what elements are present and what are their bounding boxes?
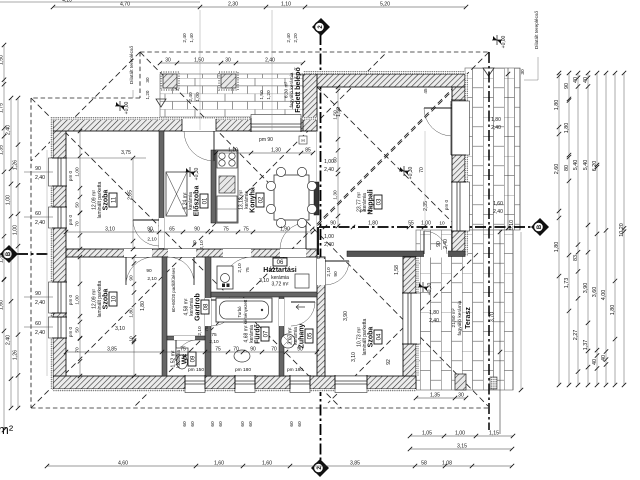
svg-text:12,09 m²: 12,09 m²: [91, 289, 97, 309]
partition: haztartasi/furdo: [211, 292, 317, 297]
svg-text:2,40: 2,40: [324, 167, 334, 173]
kitchen sink unit: [219, 176, 235, 193]
svg-text:+0,30: +0,30: [408, 166, 414, 179]
svg-text:+0,00: +0,00: [501, 35, 507, 48]
kitchen window north: [251, 119, 301, 131]
svg-text:2,40: 2,40: [493, 209, 503, 215]
dimension line: [47, 465, 512, 467]
wall: middle (west wing): [66, 249, 317, 257]
level marker: [418, 282, 428, 292]
svg-text:90: 90: [148, 229, 154, 235]
svg-text:kerámia: kerámia: [293, 327, 299, 345]
svg-text:07: 07: [263, 330, 269, 337]
svg-text:1,05: 1,05: [422, 431, 432, 437]
svg-text:90: 90: [297, 347, 303, 353]
svg-text:1,37: 1,37: [583, 340, 589, 351]
svg-text:30: 30: [520, 69, 526, 75]
svg-text:1,50: 1,50: [259, 90, 265, 100]
svg-text:1,30: 1,30: [271, 148, 281, 154]
room label 02 Konyha: [256, 193, 264, 207]
svg-text:1,60: 1,60: [0, 300, 5, 310]
wall: south exterior: [53, 376, 416, 389]
svg-text:2,40: 2,40: [491, 125, 501, 131]
svg-text:2,40: 2,40: [182, 33, 188, 43]
dimension line: [66, 351, 317, 353]
svg-text:11: 11: [111, 196, 117, 203]
partition: gardrob/furdo: [205, 257, 211, 376]
svg-text:05: 05: [307, 332, 313, 339]
svg-text:58: 58: [421, 461, 427, 467]
svg-text:pm 0: pm 0: [68, 170, 73, 181]
svg-text:1,60: 1,60: [214, 461, 224, 467]
dimension line: [337, 87, 339, 226]
haztartasi fixture: [295, 274, 309, 288]
svg-text:1,00: 1,00: [6, 195, 12, 205]
entrance door opening: [182, 119, 216, 131]
svg-text:45: 45: [423, 88, 428, 94]
svg-text:2,40: 2,40: [265, 58, 275, 64]
dimension line: [410, 435, 513, 437]
partition: szoba10/gardrob: [162, 257, 167, 376]
svg-text:60: 60: [190, 421, 196, 427]
svg-text:3,75: 3,75: [121, 150, 131, 156]
entrance door leaf+arc: [213, 131, 215, 161]
dimension line: [577, 73, 579, 385]
svg-text:3,10: 3,10: [115, 326, 125, 332]
svg-text:Szoba: Szoba: [368, 327, 375, 348]
svg-text:60: 60: [240, 421, 246, 427]
svg-text:1,20: 1,20: [266, 90, 272, 100]
svg-text:pm 0: pm 0: [68, 326, 73, 337]
svg-text:2,30: 2,30: [228, 2, 238, 8]
svg-text:1,80: 1,80: [368, 221, 378, 227]
wall: east exterior (nappali): [452, 87, 465, 256]
dimension line: [410, 448, 512, 450]
svg-text:fagyálló kerámia: fagyálló kerámia: [457, 300, 463, 335]
dimension line: [568, 73, 570, 385]
roof eave outline: [140, 51, 489, 53]
svg-text:Dilatált tereplécső: Dilatált tereplécső: [534, 11, 540, 49]
section marker B: [0, 245, 18, 263]
svg-text:2,40: 2,40: [6, 335, 12, 345]
svg-text:3,10: 3,10: [351, 352, 357, 362]
dimension line: [216, 152, 313, 154]
wall: zuhany/szoba04 divider: [317, 257, 325, 376]
room label 08 Gardrob: [201, 300, 209, 314]
svg-text:02: 02: [258, 196, 264, 203]
svg-text:3,90: 3,90: [583, 283, 589, 294]
svg-text:1,10: 1,10: [281, 2, 291, 8]
svg-text:1,60: 1,60: [262, 461, 272, 467]
svg-text:1,15: 1,15: [489, 431, 499, 437]
insulation dots north-west: [53, 117, 317, 120]
svg-text:1,80: 1,80: [429, 310, 439, 316]
dimension line: [587, 73, 589, 385]
svg-text:30: 30: [225, 58, 231, 64]
svg-text:4,00: 4,00: [601, 290, 607, 301]
svg-text:Szoba: Szoba: [103, 190, 110, 211]
svg-text:1,80: 1,80: [129, 308, 135, 318]
svg-text:Terasz: Terasz: [465, 307, 472, 329]
insulation dots south: [53, 389, 416, 392]
svg-text:75: 75: [215, 347, 221, 353]
dimension line: [3, 45, 5, 430]
section line 2 vertical: [320, 34, 322, 461]
wardrobe eloszoba: [166, 172, 187, 216]
svg-text:+0,00: +0,00: [124, 101, 130, 114]
svg-text:1,10: 1,10: [228, 148, 238, 154]
svg-text:2,60: 2,60: [554, 164, 560, 175]
svg-text:50: 50: [75, 202, 81, 208]
svg-text:03: 03: [376, 198, 382, 205]
dimension line: [10, 98, 12, 408]
section marker 2: [312, 18, 330, 36]
svg-text:Előszoba: Előszoba: [194, 186, 201, 217]
svg-text:1,80: 1,80: [554, 100, 560, 111]
svg-text:75: 75: [204, 326, 210, 332]
svg-text:1,35: 1,35: [430, 393, 440, 399]
svg-text:2,85: 2,85: [128, 190, 134, 200]
svg-text:Háztartási: Háztartási: [263, 267, 297, 274]
room label 10 Szoba: [109, 292, 117, 306]
svg-text:5,40: 5,40: [583, 160, 589, 171]
svg-text:90: 90: [333, 271, 339, 277]
svg-text:Szoba: Szoba: [103, 289, 110, 310]
level marker: [115, 101, 125, 111]
window dim left: [24, 171, 53, 173]
svg-text:12,09 m²: 12,09 m²: [91, 190, 97, 210]
svg-text:m²: m²: [0, 422, 14, 437]
svg-text:21,50 m²: 21,50 m²: [451, 308, 457, 327]
svg-text:3,10: 3,10: [105, 227, 115, 233]
svg-text:50: 50: [75, 327, 81, 333]
svg-text:Zuhany: Zuhany: [299, 323, 306, 348]
svg-text:Konyha: Konyha: [250, 187, 257, 213]
svg-text:1,08: 1,08: [442, 461, 452, 467]
svg-text:Turbó: Turbó: [237, 306, 242, 318]
svg-text:30: 30: [165, 58, 171, 64]
svg-text:90: 90: [250, 347, 256, 353]
svg-text:23,77 m²: 23,77 m²: [356, 192, 362, 212]
svg-text:1,40: 1,40: [189, 33, 195, 43]
wall: north (east wing): [303, 74, 465, 87]
dimension line: [160, 62, 303, 64]
svg-text:3,07 m²: 3,07 m²: [287, 327, 293, 344]
svg-text:2,40: 2,40: [35, 300, 45, 306]
door: terrace from nappali: [424, 250, 448, 258]
svg-text:4,10: 4,10: [62, 0, 72, 4]
svg-text:1,00: 1,00: [75, 295, 81, 305]
svg-text:2,10: 2,10: [147, 276, 157, 282]
door: gardrob: [168, 249, 196, 257]
svg-text:2,27: 2,27: [573, 330, 579, 341]
svg-text:75: 75: [245, 267, 251, 273]
room label 03 Nappali: [374, 195, 382, 209]
wall: nappali west stub: [314, 182, 319, 215]
svg-text:+0,30: +0,30: [194, 167, 200, 180]
svg-text:90: 90: [330, 221, 336, 227]
dimension line: [596, 73, 598, 385]
svg-text:Fedett belépő: Fedett belépő: [295, 67, 302, 113]
left window dim line: [46, 150, 48, 376]
svg-text:40: 40: [592, 359, 598, 365]
furdo sink: [234, 350, 250, 362]
svg-text:2,40: 2,40: [443, 239, 449, 249]
svg-text:+0,30: +0,30: [427, 282, 433, 295]
section marker B: [531, 218, 549, 236]
svg-text:10: 10: [439, 221, 445, 227]
stove: [217, 151, 237, 168]
nappali east window 2: [452, 182, 465, 231]
svg-text:75: 75: [211, 332, 217, 338]
door: haztartasi from konyha: [280, 249, 306, 257]
svg-text:2,40: 2,40: [6, 125, 12, 135]
svg-text:pm 90: pm 90: [259, 137, 273, 143]
svg-text:pm 150: pm 150: [188, 367, 204, 373]
porch paving (Fedett belepo): [160, 74, 303, 119]
zuhany arrow: [296, 305, 305, 310]
door: szoba11: [159, 218, 164, 248]
svg-text:01: 01: [202, 197, 208, 204]
door: szoba04 entry: [317, 259, 325, 285]
svg-text:pm 0: pm 0: [68, 294, 73, 305]
svg-text:60: 60: [218, 421, 224, 427]
svg-text:H: H: [301, 138, 304, 143]
room label 11 Szoba: [109, 193, 117, 207]
svg-text:1,00: 1,00: [421, 221, 431, 227]
svg-text:fagyálló kerámia: fagyálló kerámia: [289, 72, 295, 107]
svg-text:70: 70: [419, 167, 425, 173]
window dim left: [24, 326, 53, 328]
svg-text:70: 70: [233, 347, 239, 353]
svg-text:40: 40: [601, 355, 607, 361]
svg-text:3,90: 3,90: [343, 311, 349, 321]
wall: north (west wing): [53, 119, 317, 131]
door: furdo: [205, 298, 211, 326]
svg-text:1,50: 1,50: [194, 58, 204, 64]
dimension line: [53, 6, 466, 8]
svg-text:60: 60: [297, 421, 303, 427]
svg-text:4,70: 4,70: [120, 2, 130, 8]
svg-text:2,40: 2,40: [35, 220, 45, 226]
dimension line: [17, 98, 19, 408]
svg-text:kerámia: kerámia: [249, 325, 255, 343]
terrace column: [455, 374, 466, 390]
svg-text:2,40: 2,40: [188, 92, 194, 102]
insulation dots east: [465, 74, 468, 256]
svg-text:1,73: 1,73: [564, 278, 570, 289]
svg-text:pm 180: pm 180: [287, 367, 303, 373]
wall: szoba04 east: [403, 257, 416, 376]
south window wc: [185, 376, 205, 388]
svg-text:kerámia: kerámia: [271, 275, 289, 281]
roof edge right heavy dashed: [488, 52, 490, 430]
svg-text:6,20: 6,20: [592, 161, 598, 172]
svg-text:2,40: 2,40: [324, 242, 334, 248]
svg-text:70: 70: [271, 347, 277, 353]
svg-text:2,10: 2,10: [326, 267, 332, 277]
svg-text:13,13 m²: 13,13 m²: [238, 190, 244, 210]
svg-text:6,24 m²: 6,24 m²: [182, 192, 188, 209]
svg-text:2,40: 2,40: [286, 33, 292, 43]
svg-text:1,52 m²: 1,52 m²: [170, 350, 176, 367]
section line B horizontal: [17, 253, 319, 255]
section jog: [317, 227, 319, 254]
dimension line: [614, 73, 616, 385]
porch column 1: [163, 74, 177, 88]
svg-text:1,20: 1,20: [145, 90, 150, 99]
svg-text:75: 75: [223, 227, 229, 233]
svg-text:60+60/20 padlófűtéses: 60+60/20 padlófűtéses: [171, 267, 176, 312]
nappali east door: [452, 101, 465, 155]
svg-text:2,10: 2,10: [199, 240, 205, 250]
svg-text:1,00: 1,00: [75, 167, 81, 177]
svg-text:kerámia: kerámia: [189, 298, 195, 316]
dining table: [274, 175, 309, 220]
svg-text:B: B: [537, 224, 543, 229]
svg-text:09: 09: [190, 355, 196, 362]
svg-text:2,40: 2,40: [429, 318, 439, 324]
room label 09 Wc: [188, 352, 196, 366]
room label 05 Zuhany: [305, 329, 313, 343]
svg-text:60: 60: [35, 321, 41, 327]
south window szoba04: [335, 376, 367, 388]
window W1 left 90: [53, 158, 66, 186]
svg-text:55: 55: [408, 221, 414, 227]
svg-text:10,73 m²: 10,73 m²: [356, 327, 362, 347]
svg-text:83: 83: [573, 255, 579, 261]
roof hip/valley diagonals: [140, 52, 488, 406]
svg-text:3,10: 3,10: [259, 278, 269, 284]
wall: porch east side: [303, 74, 317, 131]
porch level mark: [156, 99, 166, 107]
svg-text:1,80: 1,80: [564, 123, 570, 134]
window dim left: [24, 296, 53, 298]
svg-text:4,58 m²: 4,58 m²: [183, 298, 189, 315]
svg-text:06: 06: [277, 260, 284, 266]
svg-text:60: 60: [210, 421, 216, 427]
insulation dots west: [50, 117, 53, 389]
svg-text:laminált parketta: laminált parketta: [97, 280, 103, 317]
svg-text:90: 90: [146, 268, 152, 274]
svg-text:1,00: 1,00: [13, 225, 19, 235]
svg-text:1,60: 1,60: [493, 201, 503, 207]
svg-text:90: 90: [35, 291, 41, 297]
svg-text:2,40: 2,40: [35, 175, 45, 181]
svg-text:3,85: 3,85: [350, 461, 360, 467]
svg-text:1,80: 1,80: [491, 117, 501, 123]
dimension line: [623, 73, 625, 385]
svg-text:70: 70: [75, 347, 81, 353]
svg-text:90: 90: [35, 166, 41, 172]
south window furdo: [235, 376, 255, 388]
svg-text:60: 60: [333, 157, 339, 163]
svg-text:2,35: 2,35: [423, 201, 429, 211]
insulation dots north-east: [303, 71, 465, 74]
svg-text:pm 0: pm 0: [68, 214, 73, 225]
wall: west exterior: [53, 119, 66, 389]
svg-text:kerámia: kerámia: [244, 191, 250, 209]
svg-text:laminált parketta: laminált parketta: [362, 318, 368, 355]
svg-text:04: 04: [376, 333, 382, 340]
bathtub: [216, 298, 272, 322]
svg-text:Fürdő: Fürdő: [255, 324, 262, 344]
porch column 2: [221, 74, 236, 88]
svg-text:1,00: 1,00: [455, 431, 465, 437]
room label 06 Háztartási: [273, 258, 287, 266]
svg-text:kéményezett: kéményezett: [243, 299, 248, 324]
wall: nappali south: [347, 251, 465, 257]
szoba04 east window: [403, 293, 416, 344]
kitchen counter: [216, 150, 238, 223]
svg-text:1,90: 1,90: [280, 227, 290, 233]
svg-text:laminált parketta: laminált parketta: [97, 181, 103, 218]
svg-text:Gardrob: Gardrob: [195, 293, 202, 321]
dimension line: [79, 131, 81, 249]
window W3 left 90: [53, 282, 66, 313]
svg-text:2,10: 2,10: [197, 326, 203, 336]
svg-text:kerámia: kerámia: [188, 192, 194, 210]
svg-text:Nappali: Nappali: [368, 189, 375, 214]
svg-text:70: 70: [75, 221, 81, 227]
svg-text:3,15: 3,15: [457, 444, 467, 450]
svg-text:60: 60: [182, 421, 188, 427]
svg-text:85: 85: [305, 148, 311, 154]
svg-text:75: 75: [243, 227, 249, 233]
dimension line: [79, 257, 81, 376]
terrace paving upper: [465, 68, 520, 230]
svg-text:60: 60: [35, 211, 41, 217]
svg-text:2,40: 2,40: [35, 330, 45, 336]
room label 01 Előszoba: [200, 194, 208, 208]
svg-text:80: 80: [564, 165, 570, 171]
level marker: [399, 166, 409, 176]
svg-text:1,00: 1,00: [324, 234, 334, 240]
partition: szoba11/eloszoba: [159, 131, 164, 249]
section marker 2: [311, 459, 329, 477]
dimension line: [416, 397, 466, 399]
insulation dots szoba04 east: [416, 257, 419, 376]
terrace level mark: [483, 68, 494, 76]
washing machine: [217, 266, 233, 289]
svg-text:75: 75: [180, 347, 186, 353]
room label 04 Szoba: [374, 330, 382, 344]
window W4 left 60: [53, 317, 66, 338]
svg-text:kerámia: kerámia: [176, 350, 182, 368]
terrace paving lower: [416, 230, 513, 390]
terrace small pier: [490, 377, 497, 389]
door: wc: [174, 336, 195, 340]
dimension line: [605, 73, 607, 385]
dimension line: [66, 231, 313, 233]
window dim left: [24, 216, 53, 218]
svg-text:92: 92: [386, 359, 392, 365]
svg-text:2,10: 2,10: [237, 263, 243, 273]
svg-text:4,60: 4,60: [118, 461, 128, 467]
svg-text:90: 90: [192, 240, 198, 246]
dimension line: [558, 73, 560, 385]
svg-text:3,85: 3,85: [107, 347, 117, 353]
svg-text:Wc: Wc: [182, 354, 189, 365]
svg-text:10: 10: [111, 295, 117, 302]
wc toilet: [176, 348, 188, 355]
svg-text:1,30: 1,30: [333, 190, 339, 200]
south window zuhany: [290, 376, 310, 388]
door: szoba10: [124, 249, 152, 257]
kitchen shelf: [217, 196, 237, 222]
svg-text:1,58: 1,58: [394, 265, 400, 275]
svg-text:60: 60: [289, 421, 295, 427]
